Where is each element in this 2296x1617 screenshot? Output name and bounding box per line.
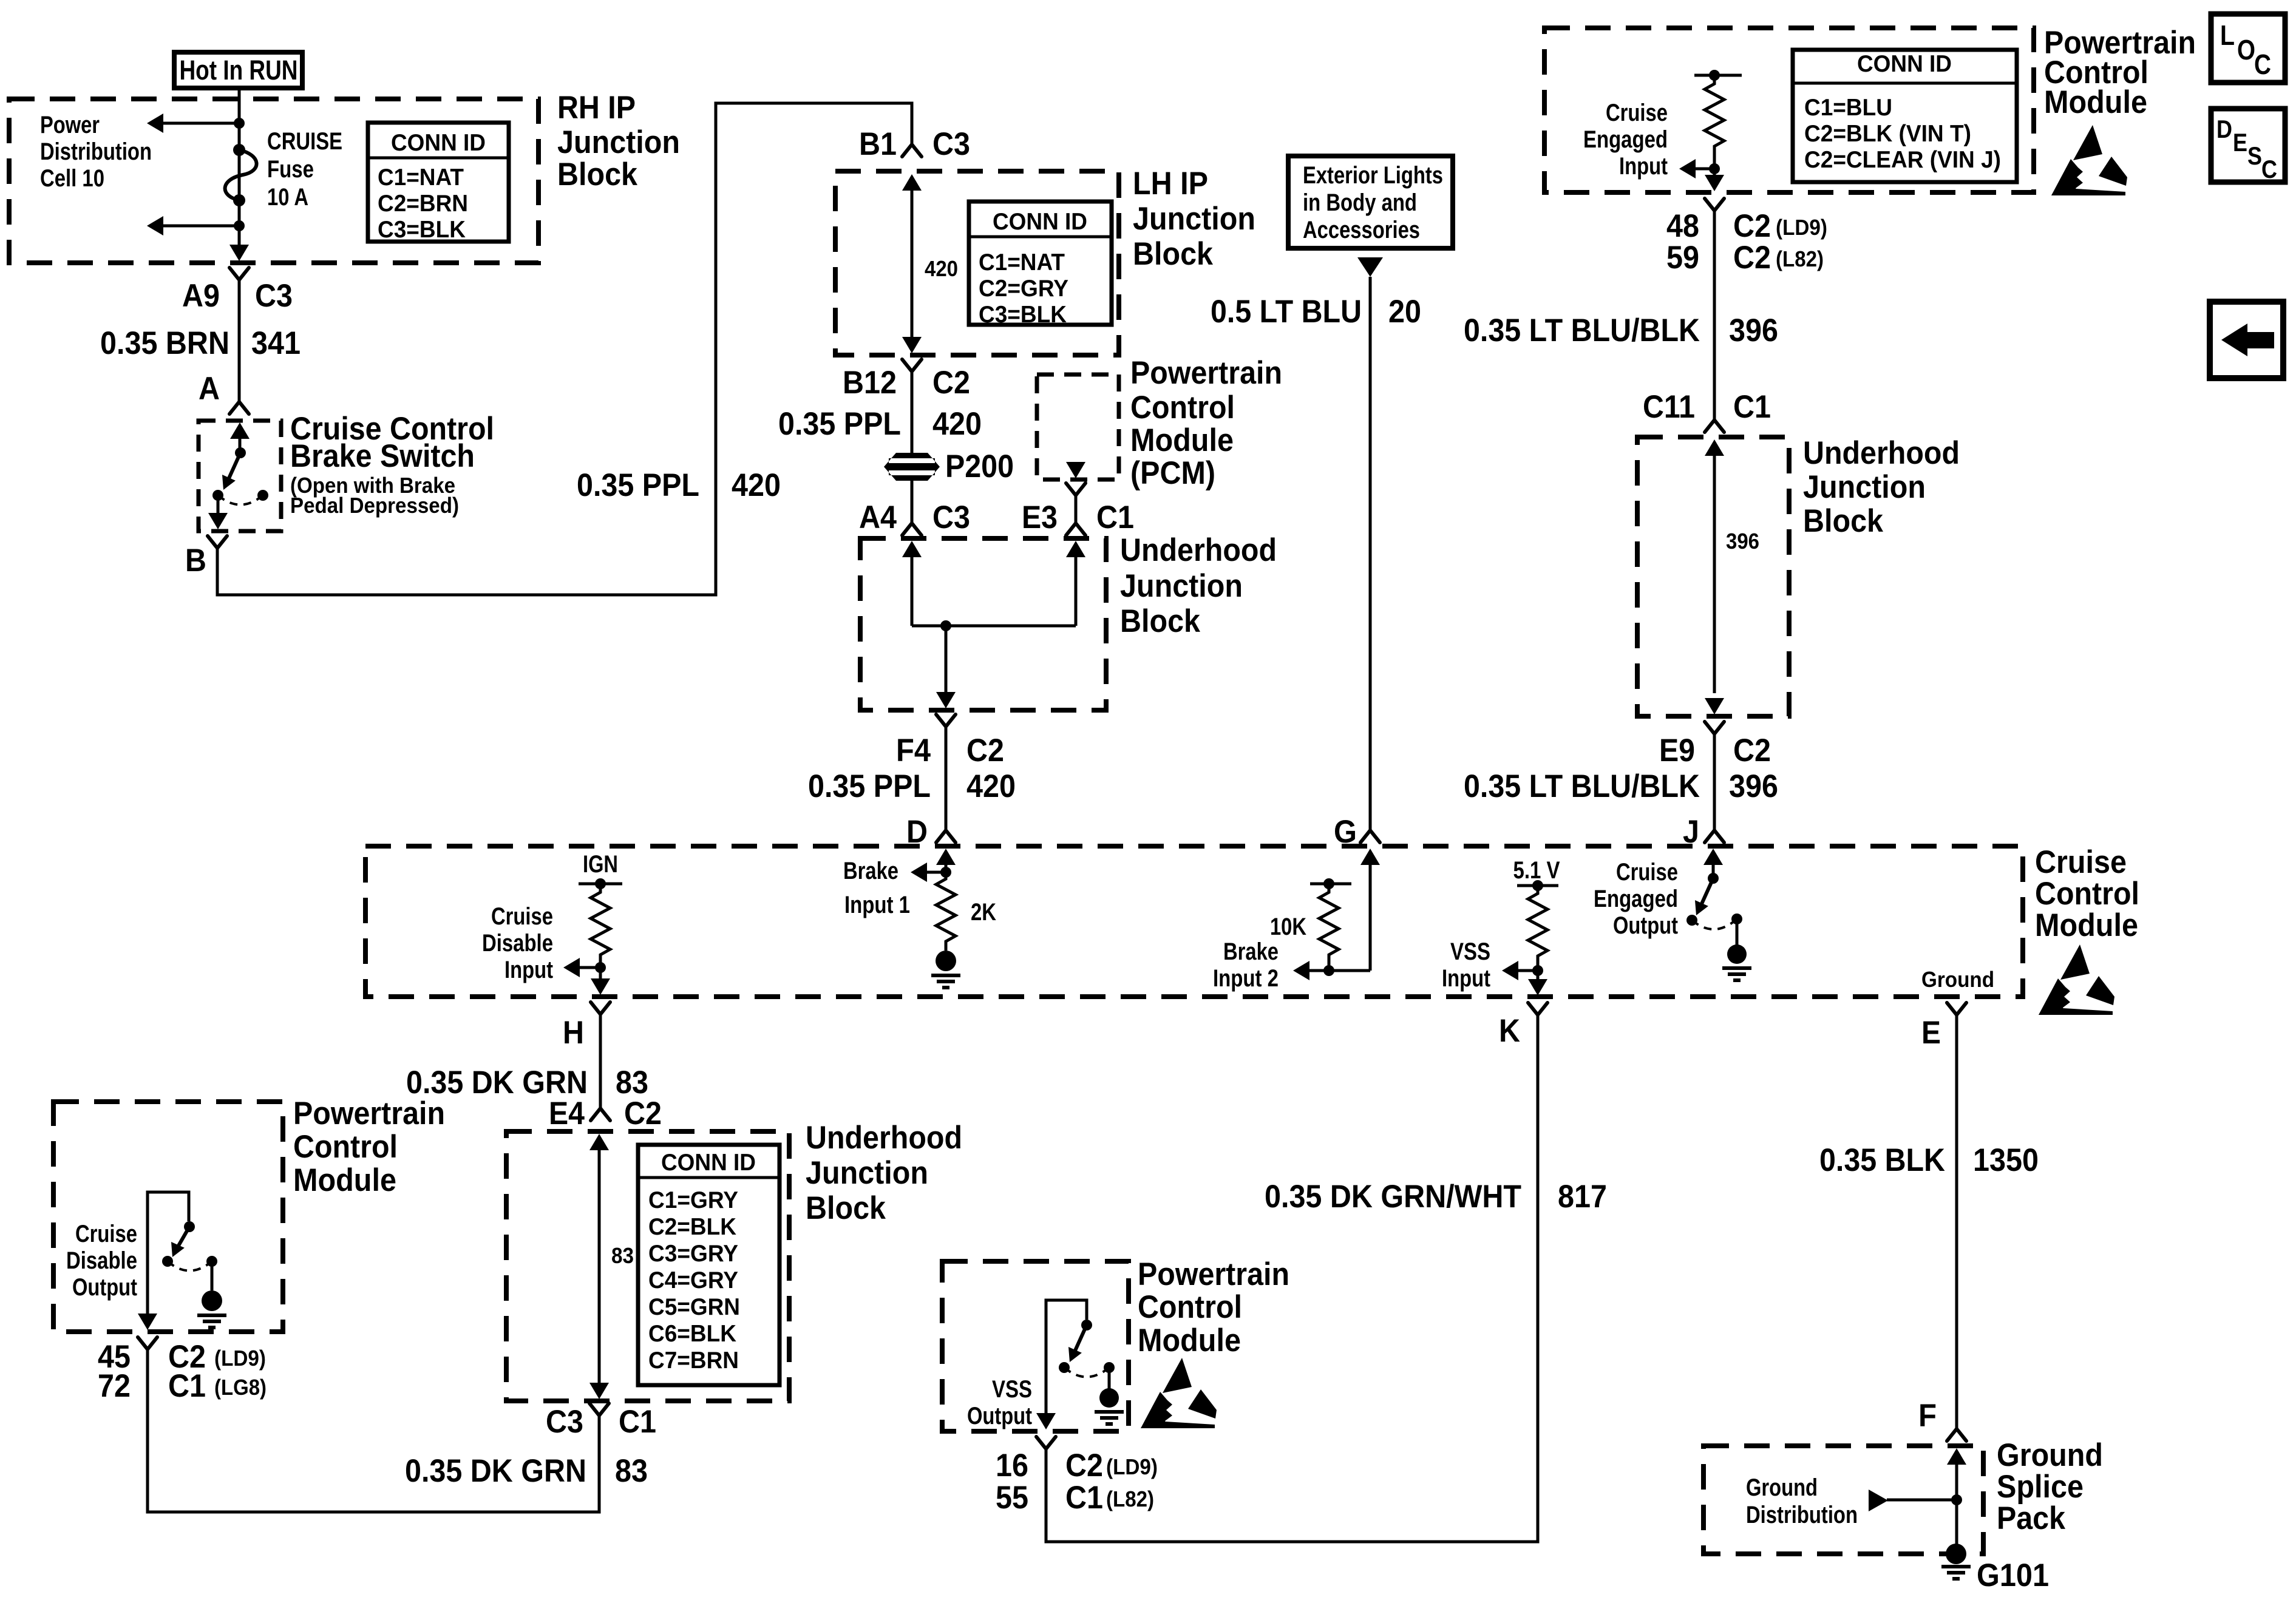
svg-text:Powertrain: Powertrain [1130,355,1282,391]
svg-text:C2=BLK (VIN T): C2=BLK (VIN T) [1804,121,1971,147]
arrow exiting PCM [1066,462,1085,478]
connector A4/C3 [902,523,922,535]
svg-text:C3=GRY: C3=GRY [648,1241,738,1267]
svg-text:C4=GRY: C4=GRY [648,1267,738,1293]
svg-text:Module: Module [2035,907,2138,943]
svg-text:C: C [2261,155,2277,183]
connector C3/C1 [589,1403,609,1415]
svg-text:C1: C1 [168,1368,206,1404]
svg-text:Input: Input [1619,153,1668,180]
svg-text:C11: C11 [1643,389,1695,425]
svg-text:D: D [2216,115,2232,143]
svg-text:Input: Input [1442,965,1490,992]
svg-text:817: 817 [1558,1179,1607,1215]
svg-text:C1=NAT: C1=NAT [979,249,1065,276]
svg-text:G101: G101 [1977,1558,2049,1593]
svg-text:Junction: Junction [806,1155,928,1191]
svg-text:Module: Module [1130,422,1234,458]
RH IP CONN ID table [368,123,509,243]
svg-text:C1: C1 [1096,500,1134,535]
svg-text:0.35 PPL: 0.35 PPL [778,406,901,442]
ESD symbol CCM [2039,944,2114,1015]
connector A [229,402,249,414]
svg-text:2K: 2K [971,899,996,926]
svg-text:0.35 BLK: 0.35 BLK [1819,1142,1945,1178]
svg-text:Input 1: Input 1 [844,892,910,918]
svg-text:C3: C3 [932,500,970,535]
svg-text:396: 396 [1726,529,1759,554]
svg-text:420: 420 [925,256,958,281]
switch Cruise Engaged Output [1594,849,1742,939]
svg-text:J: J [1683,814,1699,850]
connector F [1947,1429,1966,1441]
resistor cruise engaged pull-up [1694,70,1742,174]
svg-text:C2=BLK: C2=BLK [648,1214,736,1240]
connector K [1528,1003,1547,1015]
svg-text:E9: E9 [1659,733,1695,768]
wire 396 0.35 LT BLU/BLK upper [1713,211,1716,420]
svg-text:Power: Power [40,112,100,138]
svg-text:Junction: Junction [1803,469,1926,505]
connector at underhood block top right [1066,523,1085,535]
svg-text:48: 48 [1666,208,1699,244]
svg-text:83: 83 [611,1243,634,1268]
svg-text:C5=GRN: C5=GRN [648,1294,740,1320]
svg-text:C: C [2254,49,2271,80]
connector G [1360,830,1380,842]
connector 48-59/C2 [1705,198,1724,211]
svg-text:H: H [563,1015,584,1051]
svg-text:Block: Block [557,157,637,192]
svg-text:(LD9): (LD9) [214,1346,266,1371]
svg-text:C1: C1 [619,1404,656,1440]
wire inside underhood right block [1705,439,1759,714]
svg-text:(L82): (L82) [1776,246,1824,271]
svg-text:C1=BLU: C1=BLU [1804,95,1892,121]
svg-text:C2: C2 [1065,1448,1103,1483]
svg-text:Pedal Depressed): Pedal Depressed) [290,493,459,518]
wire P200 to A4 [911,480,914,523]
svg-text:E3: E3 [1022,500,1058,535]
svg-text:E: E [1921,1015,1941,1051]
resistor VSS 5.1V pull-up [1513,857,1560,976]
svg-text:IGN: IGN [583,851,618,878]
svg-text:A9: A9 [182,278,220,314]
svg-text:Underhood: Underhood [806,1120,962,1156]
svg-text:5.1 V: 5.1 V [1513,857,1560,884]
svg-text:P200: P200 [945,449,1014,484]
connector F4/C2 [936,714,956,727]
svg-text:C1=GRY: C1=GRY [648,1187,738,1213]
svg-text:396: 396 [1729,313,1778,348]
svg-text:C2: C2 [1733,733,1771,768]
svg-text:420: 420 [966,768,1016,804]
svg-text:Powertrain: Powertrain [1138,1256,1289,1292]
brake switch contacts and blade [208,422,268,529]
connector D [936,830,956,842]
wire into splice pack [1947,1448,1966,1545]
svg-text:Junction: Junction [557,124,680,160]
ground internal cruise disable output [197,1261,226,1327]
svg-text:10K: 10K [1270,914,1306,940]
svg-text:K: K [1499,1013,1520,1049]
svg-text:Cruise: Cruise [1616,859,1678,886]
svg-text:0.5 LT BLU: 0.5 LT BLU [1211,294,1362,330]
PCM CONN ID table right [1793,50,2017,182]
node Exterior Lights in Body and Accessories [1288,156,1453,277]
fuse F CRUISE 10A [225,128,342,211]
Cruise Control Module box [365,844,2139,997]
svg-text:0.35 BRN: 0.35 BRN [100,325,229,361]
svg-text:Junction: Junction [1120,568,1243,604]
wire feed to power distribution bottom [159,225,239,228]
svg-text:(PCM): (PCM) [1130,455,1215,491]
svg-text:C7=BRN: C7=BRN [648,1347,739,1374]
svg-text:C2=GRY: C2=GRY [979,276,1068,302]
svg-text:A: A [199,371,220,407]
svg-text:72: 72 [98,1368,131,1404]
junction dot top feed [234,118,245,129]
svg-text:Input 2: Input 2 [1213,965,1279,992]
svg-text:0.35 LT BLU/BLK: 0.35 LT BLU/BLK [1464,768,1700,804]
svg-text:Splice: Splice [1997,1469,2084,1505]
Underhood Junction Block middle box [860,532,1277,710]
svg-text:Block: Block [1803,503,1883,539]
resistor 2K [936,872,996,951]
svg-text:Block: Block [1120,603,1200,639]
svg-text:Underhood: Underhood [1803,435,1960,471]
connector E4/C2 [591,1108,610,1120]
PCM (PCM) box [1037,355,1282,491]
pin VSS Input arrow [1442,938,1538,992]
svg-text:341: 341 [251,325,301,361]
svg-text:Cruise: Cruise [491,903,553,930]
svg-text:C2: C2 [624,1096,662,1131]
connector J [1705,830,1724,842]
svg-text:B12: B12 [843,365,897,401]
svg-text:(LD9): (LD9) [1106,1454,1158,1479]
svg-text:0.35 DK GRN: 0.35 DK GRN [405,1453,586,1489]
arrow exiting CCM at K [1528,971,1547,995]
svg-text:C3: C3 [255,278,293,314]
wire inside LH IP block [902,174,958,353]
svg-text:B: B [185,543,206,578]
connector B12/C2 [902,359,922,371]
Powertrain Control Module VSS box [942,1256,1289,1431]
wire 420 0.35 PPL lower [945,727,948,830]
wire 83 0.35 DK GRN lower [148,1349,599,1512]
arrow exiting RH IP block [229,245,249,261]
Ground Splice Pack box [1703,1437,2103,1554]
svg-text:Block: Block [806,1190,886,1226]
svg-text:A4: A4 [859,500,897,535]
svg-text:in Body and: in Body and [1303,189,1417,216]
splice P200 [884,449,1014,484]
svg-text:Exterior Lights: Exterior Lights [1303,162,1443,189]
connector 16-55/C2-C1 [1036,1437,1056,1449]
svg-text:Accessories: Accessories [1303,217,1420,243]
wire from Hot In RUN to fuse [238,86,241,247]
svg-text:0.35 PPL: 0.35 PPL [577,467,699,503]
svg-text:O: O [2237,34,2255,66]
wire from B to B1 [217,103,912,595]
svg-text:C2=BRN: C2=BRN [378,191,468,217]
svg-text:16: 16 [996,1448,1028,1483]
svg-text:VSS: VSS [992,1376,1032,1403]
svg-text:Cruise: Cruise [2035,844,2127,880]
svg-text:LH IP: LH IP [1133,166,1208,202]
svg-text:Cruise: Cruise [1606,100,1668,126]
svg-text:Brake: Brake [1223,938,1279,965]
LH IP CONN ID table [969,202,1112,328]
svg-text:C1: C1 [1065,1480,1103,1516]
svg-text:Brake: Brake [843,858,898,884]
svg-text:CONN ID: CONN ID [993,209,1087,235]
svg-text:Disable: Disable [482,930,553,957]
svg-text:Module: Module [2044,84,2147,120]
svg-text:(LG8): (LG8) [214,1375,267,1400]
ground G101 [1941,1544,2049,1593]
svg-text:Pack: Pack [1997,1500,2065,1536]
svg-text:CONN ID: CONN ID [391,130,486,156]
connector B1/C3 [902,144,922,157]
svg-text:420: 420 [932,406,982,442]
Underhood Junction Block bottom left box [506,1120,962,1401]
svg-text:Brake Switch: Brake Switch [290,438,475,474]
LOC box [2211,14,2285,83]
svg-text:G: G [1334,814,1357,850]
svg-text:Control: Control [293,1129,398,1165]
svg-text:Engaged: Engaged [1583,126,1668,153]
svg-text:Input: Input [504,957,553,983]
pin Brake Input 1 [843,849,956,918]
svg-text:C3: C3 [546,1404,583,1440]
svg-text:0.35 PPL: 0.35 PPL [808,768,931,804]
junction dot bottom feed [234,220,245,231]
svg-text:C2=CLEAR (VIN J): C2=CLEAR (VIN J) [1804,147,2001,173]
Underhood Junction Block right box [1637,435,1960,716]
svg-text:Distribution: Distribution [1746,1502,1858,1528]
wire E3 to underhood block [1075,495,1078,523]
resistor 10K [1270,878,1351,976]
cruise control brake switch box [199,421,281,531]
Underhood CONN ID table [638,1145,779,1385]
svg-text:C2: C2 [966,733,1004,768]
svg-text:20: 20 [1388,294,1421,330]
svg-text:C2: C2 [932,365,970,401]
switch Cruise Disable Output [66,1192,217,1330]
svg-text:VSS: VSS [1450,938,1490,965]
svg-text:E4: E4 [549,1096,585,1131]
svg-text:C6=BLK: C6=BLK [648,1321,736,1347]
svg-text:Hot In RUN: Hot In RUN [180,55,298,86]
wire 341 0.35 BRN [238,280,241,402]
svg-text:Underhood: Underhood [1120,532,1277,568]
node Ground Distribution [1746,1474,1957,1528]
wire feed to power distribution top [159,122,239,125]
wire 396 0.35 LT BLU/BLK lower [1713,734,1716,830]
svg-text:E: E [2233,128,2247,157]
svg-text:59: 59 [1666,240,1699,276]
svg-text:Control: Control [1130,390,1235,425]
svg-text:S: S [2247,141,2262,170]
connector B [208,536,227,548]
svg-text:Fuse: Fuse [267,156,314,183]
wire G to brake input 2 [1329,849,1380,971]
RH IP Junction Block box [9,90,680,263]
svg-text:Cruise: Cruise [75,1221,137,1247]
svg-text:Cell 10: Cell 10 [40,165,104,192]
ESD symbol VSS PCM [1141,1358,1217,1428]
brake switch label [290,411,494,518]
svg-text:Control: Control [2035,876,2139,912]
svg-text:55: 55 [996,1480,1028,1516]
node Hot In RUN [174,52,302,88]
svg-text:CONN ID: CONN ID [661,1150,756,1176]
connector A9/C3 [229,268,249,280]
svg-text:Module: Module [1138,1323,1241,1358]
pin Brake Input 2 arrow [1213,938,1329,992]
svg-text:0.35 DK GRN/WHT: 0.35 DK GRN/WHT [1265,1179,1521,1215]
ground internal VSS output [1095,1368,1124,1424]
svg-text:F: F [1918,1398,1937,1434]
svg-text:Control: Control [1138,1289,1242,1325]
connector C11/C1 [1705,420,1724,432]
connector E3/C1 [1066,483,1085,495]
back arrow box [2210,302,2283,378]
wire 420 0.35 PPL upper [911,371,914,455]
ground internal 2K [931,951,960,988]
wire 817 0.35 DK GRN/WHT [1046,1015,1538,1542]
resistor IGN cruise disable pull-up [579,851,622,973]
svg-text:Powertrain: Powertrain [293,1096,445,1131]
svg-text:Engaged: Engaged [1594,886,1678,912]
wire 83 inside underhood block [589,1134,634,1399]
arrow exiting CCM at H [591,968,610,995]
svg-text:10 A: 10 A [267,184,308,211]
svg-text:83: 83 [615,1453,648,1489]
connector E9/C2 [1705,722,1724,734]
svg-text:Block: Block [1133,236,1213,272]
svg-text:420: 420 [732,467,781,503]
svg-text:C1=NAT: C1=NAT [378,164,464,191]
svg-text:L: L [2220,19,2235,51]
Powertrain Control Module top right box [1544,25,2196,192]
svg-text:B1: B1 [859,126,897,162]
svg-text:C2: C2 [1733,240,1771,276]
svg-text:C2: C2 [1733,208,1771,244]
Powertrain Control Module bottom left box [53,1096,445,1332]
svg-text:Output: Output [967,1403,1032,1429]
svg-text:C3=BLK: C3=BLK [378,217,466,243]
svg-text:Ground: Ground [1746,1474,1818,1501]
svg-text:C3=BLK: C3=BLK [979,302,1067,328]
svg-text:Ground: Ground [1921,967,1994,992]
svg-text:(L82): (L82) [1106,1486,1154,1511]
DESC box [2211,109,2285,183]
connector 45-72/C2-C1 [138,1337,157,1349]
svg-text:Distribution: Distribution [40,138,152,165]
svg-text:Disable: Disable [66,1247,137,1274]
svg-text:CRUISE: CRUISE [267,128,342,155]
pin Cruise Disable Input arrow [482,903,600,983]
svg-text:F4: F4 [896,733,931,768]
wire 1350 0.35 BLK [1955,1015,1958,1429]
svg-text:Output: Output [72,1274,137,1301]
svg-text:396: 396 [1729,768,1778,804]
svg-text:1350: 1350 [1973,1142,2039,1178]
wire 83 0.35 DK GRN upper [599,1014,602,1108]
svg-text:RH IP: RH IP [557,90,636,126]
ESD symbol PCM top right [2051,125,2127,195]
svg-text:C3: C3 [932,126,970,162]
svg-text:(LD9): (LD9) [1776,215,1827,240]
svg-text:CONN ID: CONN ID [1857,51,1952,77]
svg-text:Junction: Junction [1133,201,1255,237]
connector E [1947,1003,1966,1015]
LH IP Junction Block box [835,166,1255,355]
svg-text:Output: Output [1613,912,1678,939]
svg-text:Module: Module [293,1162,396,1198]
pin Cruise Engaged Input arrow [1583,100,1714,180]
node Power Distribution Cell 10 [40,112,152,192]
wires joining inside underhood block [902,541,1085,708]
switch VSS Output [967,1300,1115,1429]
arrow exiting PCM top right [1705,169,1724,191]
connector H [591,1002,610,1014]
ground internal cruise engaged output [1722,919,1751,980]
wire 20 0.5 LT BLU [1369,277,1372,830]
svg-text:0.35 LT BLU/BLK: 0.35 LT BLU/BLK [1464,313,1700,348]
svg-text:C1: C1 [1733,389,1771,425]
svg-text:Ground: Ground [1997,1437,2103,1473]
